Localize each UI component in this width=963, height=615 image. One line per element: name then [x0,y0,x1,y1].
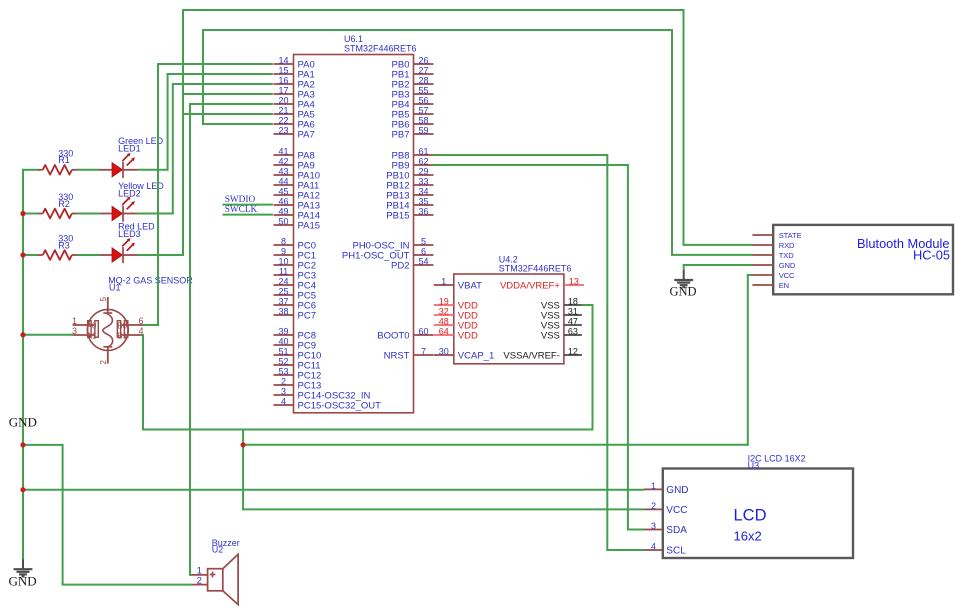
wire SWCLK stub [223,214,273,216]
U6.1 pin 22 PA6 [274,116,315,131]
svg-text:VBAT: VBAT [458,280,482,291]
Bluetooth module HC-05 body [773,225,953,294]
wire LED2 row [137,213,174,215]
svg-text:29: 29 [418,167,428,177]
svg-text:2: 2 [197,576,202,587]
wire PA6 horizontal [203,123,273,125]
U6.1 pin 20 PA4 [274,96,315,111]
U4.2 pin 32 VDD [434,307,478,322]
svg-text:LED1: LED1 [118,144,141,154]
svg-text:28: 28 [418,76,428,86]
svg-text:57: 57 [418,106,428,116]
wire RXD into module [683,244,753,246]
svg-text:PA15: PA15 [298,220,321,231]
U6.1 pin 62 PB9 [392,157,434,172]
wire buzzer pin1 stub [189,574,192,576]
U6.1 pin 26 PB0 [392,56,434,71]
junction at 243.1,444.8 [241,442,246,447]
svg-text:6: 6 [421,247,426,257]
wire R2-LED2 mid [77,213,100,215]
U4.2 pin 47 VSS [541,317,582,332]
svg-text:SWDIO: SWDIO [225,195,256,205]
svg-text:2: 2 [281,377,286,387]
U6.1 pin 35 PB14 [386,197,433,212]
svg-text:40: 40 [278,337,288,347]
svg-text:58: 58 [418,116,428,126]
svg-text:5: 5 [99,296,108,301]
svg-text:23: 23 [278,126,288,136]
wire VCC-LCD vertical [242,430,244,511]
svg-text:PD2: PD2 [391,260,409,271]
svg-text:49: 49 [278,207,288,217]
U6.1 pin 61 PB8 [392,147,434,162]
svg-text:24: 24 [278,277,288,287]
svg-text:14: 14 [278,56,288,66]
ground symbol HC-05 [669,270,696,298]
gas sensor U1 MQ-2 [72,276,193,365]
svg-text:17: 17 [278,86,288,96]
svg-text:U6.1: U6.1 [344,34,363,44]
junction at 23,334.8 [20,332,25,337]
svg-text:20: 20 [278,96,288,106]
svg-text:MQ-2 GAS SENSOR: MQ-2 GAS SENSOR [108,276,193,286]
U6.1 pin 9 PC1 [274,247,316,262]
svg-text:GND: GND [9,574,37,589]
wire RXD top horizontal [182,9,684,11]
svg-text:LED2: LED2 [118,188,141,198]
svg-text:PB7: PB7 [392,129,410,140]
U6.1 pin 56 PB4 [392,96,434,111]
svg-text:VSSA/VREF-: VSSA/VREF- [503,350,560,361]
LED LED1 Green [98,136,163,178]
svg-text:2: 2 [99,359,108,364]
U6.1 pin 49 PA14 [274,207,321,222]
svg-text:48: 48 [439,317,449,327]
node SWDIO label [225,195,256,205]
svg-text:GND: GND [779,261,796,270]
LED LED2 Yellow [98,181,164,222]
ground symbol left [9,559,37,588]
junction at 23,444.9 [20,442,25,447]
svg-text:GND: GND [669,284,696,298]
wire PA2 horizontal [173,83,273,85]
svg-text:LED3: LED3 [118,229,141,239]
wire PA4 horizontal [190,103,273,105]
U6.1 pin 2 PC13 [274,377,322,392]
U6.1 pin 14 PA0 [274,56,315,71]
svg-text:56: 56 [418,96,428,106]
svg-text:SDA: SDA [666,525,687,536]
svg-text:U3: U3 [748,461,760,471]
svg-text:U2: U2 [212,544,224,554]
svg-text:22: 22 [278,116,288,126]
svg-text:3: 3 [281,387,286,397]
HC-05 pin GND [752,261,795,270]
U6.1 pin 29 PB10 [386,167,433,182]
wire PA0 to MQ-2 B0 horizontal [158,63,273,65]
wire TXD top horizontal [202,29,673,31]
HC-05 pin RXD [752,241,795,250]
svg-text:42: 42 [278,157,288,167]
svg-text:37: 37 [278,297,288,307]
wire SDA row [627,529,644,531]
resistor R1 330 [38,148,78,174]
svg-text:34: 34 [418,187,428,197]
svg-text:7: 7 [421,347,426,357]
U6.1 pin 60 BOOT0 [377,327,433,342]
buzzer U2 [191,538,240,604]
svg-text:2: 2 [651,501,656,511]
wire PA5 horizontal [183,113,273,115]
svg-text:21: 21 [278,106,288,116]
svg-text:1: 1 [72,316,77,326]
svg-text:35: 35 [418,197,428,207]
svg-text:50: 50 [278,217,288,227]
U6.1 pin 46 PA13 [274,197,321,212]
svg-text:R1: R1 [58,155,70,165]
svg-text:55: 55 [418,86,428,96]
svg-text:RXD: RXD [779,241,795,250]
svg-text:27: 27 [418,66,428,76]
wire buzzer pin2 vertical [62,444,64,586]
U6.1 pin 40 PC9 [274,337,316,352]
LCD U3 pin 1 GND [644,481,689,496]
svg-text:PC15-OSC32_OUT: PC15-OSC32_OUT [298,400,382,411]
U6.1 pin 36 PB15 [386,207,433,222]
wire PA2-LED2 vertical [172,83,174,214]
U4.2 pin 12 VSSA/VREF- [503,347,582,362]
wire R2 left [22,213,38,215]
ground left label GND [9,414,37,429]
U6.1 pin 11 PC3 [274,267,316,282]
wire LED3 row [137,254,184,256]
svg-text:GND: GND [666,485,688,496]
wire PA3 horizontal [183,93,273,95]
U4.2 pin 31 VSS [541,307,582,322]
U6.1 pin 6 PH1-OSC_OUT [342,247,434,262]
svg-text:44: 44 [278,177,288,187]
svg-text:32: 32 [439,307,449,317]
LCD 16x2 module U3 body [663,454,853,559]
svg-text:46: 46 [278,197,288,207]
U6.1 pin 39 PC8 [274,327,316,342]
svg-text:HC-05: HC-05 [913,247,950,262]
U6.1 pin 5 PH0-OSC_IN [352,237,433,252]
U6.1 pin 4 PC15-OSC32_OUT [274,397,382,412]
svg-text:STATE: STATE [779,231,802,240]
svg-text:8: 8 [281,237,286,247]
wire PB8-SCL vertical [606,154,608,551]
wire PA1 horizontal [168,73,273,75]
wire VCC horizontal [242,444,749,446]
svg-text:STM32F446RET6: STM32F446RET6 [344,44,417,54]
wire RXD top vertical left [182,9,184,115]
U4.2 pin 64 VDD [434,327,478,342]
svg-text:43: 43 [278,167,288,177]
wire RXD right vertical [683,9,685,246]
svg-text:VSS: VSS [541,330,560,341]
svg-text:B1: B1 [117,331,127,340]
U6.1 pin 8 PC0 [274,237,316,252]
wire TXD into module [671,254,753,256]
LED LED3 Red [98,221,155,263]
wire PA3-LED3 vertical [182,93,184,256]
U6.1 pin 44 PA11 [274,177,320,192]
junction at 23,255 [20,252,25,257]
svg-text:SCL: SCL [666,545,686,556]
svg-text:PA7: PA7 [298,129,315,140]
svg-text:PB15: PB15 [386,210,409,221]
svg-text:64: 64 [439,327,449,337]
wire buzzer pin2 row [62,584,192,586]
junction at 23,213.5 [20,211,25,216]
svg-text:VCAP_1: VCAP_1 [458,350,494,361]
wire R1 left [22,169,38,171]
wire MQ-2 B1 vertical [142,334,144,430]
svg-text:26: 26 [418,56,428,66]
U6.1 pin 33 PB12 [386,177,433,192]
svg-text:VCC: VCC [779,271,795,280]
svg-text:4: 4 [281,397,286,407]
wire PB8 horizontal [433,154,608,156]
svg-text:25: 25 [278,287,288,297]
HC-05 pin VCC [752,271,795,280]
svg-text:LCD: LCD [734,506,767,524]
wire R3-LED3 mid [77,254,100,256]
HC-05 pin EN [752,281,789,290]
wire R3 left [22,254,38,256]
svg-text:4: 4 [651,542,656,552]
U4.2 pin 1 VBAT [434,277,482,292]
svg-text:54: 54 [418,257,428,267]
svg-text:A1: A1 [87,331,97,340]
svg-text:1: 1 [651,481,656,491]
svg-text:R3: R3 [58,240,70,250]
svg-text:NRST: NRST [384,350,410,361]
svg-text:B0: B0 [117,321,127,330]
U4.2 pin 19 VDD [434,297,478,312]
wire GND to buzzer horizontal [22,444,64,446]
U6.1 pin 38 PC7 [274,307,316,322]
svg-text:51: 51 [278,347,288,357]
resistor R2 330 [38,192,78,218]
wire VSS vertical [592,304,594,430]
U6.1 pin 53 PC12 [274,367,322,382]
wire PA1-LED1 vertical [167,73,169,171]
wire R1-LED1 mid [77,169,100,171]
wire LCD GND row [22,489,644,491]
wire HC-05 GND to symbol [683,264,753,271]
svg-text:BOOT0: BOOT0 [377,330,409,341]
U6.1 pin 51 PC10 [274,347,322,362]
svg-text:47: 47 [568,317,578,327]
svg-text:VCC: VCC [666,505,687,516]
U6.1 pin 17 PA3 [274,86,315,101]
wire MQ-2 pin6 horizontal [143,324,159,326]
svg-text:EN: EN [779,281,789,290]
wire PA4-buzzer vertical [189,103,191,576]
svg-text:31: 31 [568,307,578,317]
wire PB9-SDA vertical [627,164,629,530]
svg-text:15: 15 [278,66,288,76]
svg-text:61: 61 [418,147,428,157]
U6.1 pin 24 PC4 [274,277,316,292]
U6.1 pin 25 PC5 [274,287,316,302]
U4.2 pin 18 VSS [541,297,582,312]
svg-text:60: 60 [418,327,428,337]
U6.1 pin 3 PC14-OSC32_IN [274,387,371,402]
node SWCLK label [225,205,258,215]
U6.1 pin 23 PA7 [274,126,315,141]
svg-text:38: 38 [278,307,288,317]
svg-text:GND: GND [9,414,37,429]
wire TXD right vertical [671,29,673,256]
junction at 23,489.7 [20,487,25,492]
resistor R3 330 [38,234,78,260]
svg-text:10: 10 [278,257,288,267]
svg-text:13: 13 [569,277,579,287]
svg-text:39: 39 [278,327,288,337]
U4.2 pin 13 VDDA/VREF+ [500,277,584,292]
wire PB9 horizontal [433,164,629,166]
svg-text:U1: U1 [109,283,121,293]
svg-text:R2: R2 [58,199,70,209]
U6.1 pin 50 PA15 [274,217,321,232]
svg-text:9: 9 [281,247,286,257]
svg-text:TXD: TXD [779,251,795,260]
U6.1 pin 7 NRST [384,347,434,362]
svg-text:52: 52 [278,357,288,367]
svg-text:62: 62 [418,157,428,167]
wire VSS-GND horizontal [142,429,593,431]
LCD U3 pin 3 SDA [644,521,687,536]
LCD U3 pin 4 SCL [644,542,686,557]
U6.1 pin 45 PA12 [274,187,321,202]
U6.1 pin 16 PA2 [274,76,315,91]
U6.1 pin 54 PD2 [391,257,433,272]
svg-text:45: 45 [278,187,288,197]
svg-text:6: 6 [138,316,143,326]
svg-text:18: 18 [568,297,578,307]
svg-text:33: 33 [418,177,428,187]
op-amp U4.2 STM32F446RET6 power body [454,255,572,364]
svg-text:41: 41 [278,147,288,157]
U6.1 pin 55 PB3 [392,86,434,101]
op-amp U6.1 STM32F446RET6 body [294,34,417,413]
U6.1 pin 52 PC11 [274,357,321,372]
svg-text:PC7: PC7 [298,310,316,321]
U6.1 pin 41 PA8 [274,147,315,162]
U6.1 pin 42 PA9 [274,157,315,172]
svg-text:16: 16 [278,76,288,86]
wire SCL row [606,549,644,551]
U6.1 pin 27 PB1 [392,66,434,81]
U6.1 pin 43 PA10 [274,167,321,182]
svg-text:11: 11 [279,267,288,277]
U6.1 pin 28 PB2 [392,76,434,91]
wire PA0 vertical [157,63,159,326]
U4.2 pin 63 VSS [541,327,582,342]
svg-text:STM32F446RET6: STM32F446RET6 [499,264,572,274]
U6.1 pin 59 PB7 [392,126,434,141]
svg-text:30: 30 [439,347,449,357]
wire SWDIO stub [223,204,273,206]
wire TXD top vertical left [202,29,204,125]
svg-text:16x2: 16x2 [734,529,762,544]
svg-text:63: 63 [568,327,578,337]
HC-05 pin TXD [752,251,794,260]
wire VSS18 stub [582,304,594,306]
U6.1 pin 58 PB6 [392,116,434,131]
U6.1 pin 37 PC6 [274,297,316,312]
svg-text:1: 1 [441,277,446,287]
svg-text:3: 3 [651,521,656,531]
svg-text:5: 5 [421,237,426,247]
ground rail vertical [22,169,24,560]
U4.2 pin 48 VDD [434,317,478,332]
svg-text:A0: A0 [87,321,97,330]
svg-text:19: 19 [439,297,449,307]
U4.2 pin 30 VCAP_1 [434,347,494,362]
wire VCC from HC-05 vertical [747,274,749,446]
wire VCC short to pin [747,274,753,276]
wire LED1 row [137,169,168,171]
U6.1 pin 21 PA5 [274,106,315,121]
U6.1 pin 34 PB13 [386,187,433,202]
svg-text:SWCLK: SWCLK [225,205,258,215]
HC-05 pin STATE [752,231,801,240]
svg-text:VDDA/VREF+: VDDA/VREF+ [500,280,560,291]
U6.1 pin 57 PB5 [392,106,434,121]
U6.1 pin 15 PA1 [274,66,315,81]
svg-text:59: 59 [418,126,428,136]
svg-text:36: 36 [418,207,428,217]
wire MQ-2 A1 row [22,334,73,336]
svg-text:12: 12 [568,347,578,357]
LCD U3 pin 2 VCC [644,501,688,516]
U6.1 pin 10 PC2 [274,257,316,272]
wire LCD VCC row [242,508,644,510]
svg-text:VDD: VDD [458,330,478,341]
svg-text:53: 53 [278,367,288,377]
